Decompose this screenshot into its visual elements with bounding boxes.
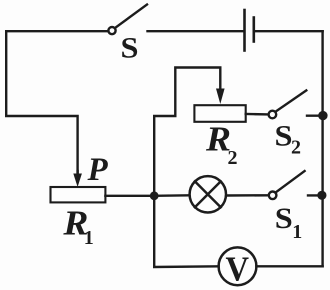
wire bottom rail: [154, 196, 218, 267]
svg-text:S: S: [121, 32, 139, 65]
wire R1 to node A: [105, 195, 154, 197]
svg-text:P: P: [87, 152, 109, 188]
svg-text:1: 1: [292, 221, 302, 243]
svg-text:1: 1: [84, 227, 94, 249]
voltmeter U1: [219, 247, 257, 285]
rheostat R2 body: [194, 105, 245, 122]
svg-text:2: 2: [228, 147, 238, 169]
svg-text:V: V: [226, 249, 250, 288]
svg-text:S: S: [275, 120, 293, 153]
wire node A up-branch to R2 slider: [154, 68, 220, 196]
rheostat R1 body: [51, 187, 106, 202]
svg-text:2: 2: [291, 137, 301, 159]
switch S1: [269, 171, 305, 199]
battery BT: [245, 10, 254, 51]
svg-text:S: S: [275, 202, 293, 235]
wire battery to right rail: [255, 30, 323, 32]
wire R2 to S2: [246, 113, 268, 116]
switch S: [108, 5, 147, 35]
slider arrow P: [73, 171, 82, 187]
wire right rail: [321, 31, 323, 266]
wire S2 stub to right rail: [307, 114, 323, 116]
switch S2: [269, 90, 307, 118]
lamp L1: [190, 176, 226, 212]
slider arrow of R2: [216, 89, 225, 105]
wire lamp to S1: [227, 194, 268, 197]
wire node A to lamp: [154, 194, 188, 197]
wire S1 stub to right rail: [308, 194, 323, 196]
wire S to battery: [148, 30, 244, 32]
node junction A dot: [150, 191, 159, 200]
wire top-left rail: [6, 31, 107, 175]
node dot S2-rail: [318, 111, 327, 120]
node dot S1-rail: [317, 191, 326, 200]
